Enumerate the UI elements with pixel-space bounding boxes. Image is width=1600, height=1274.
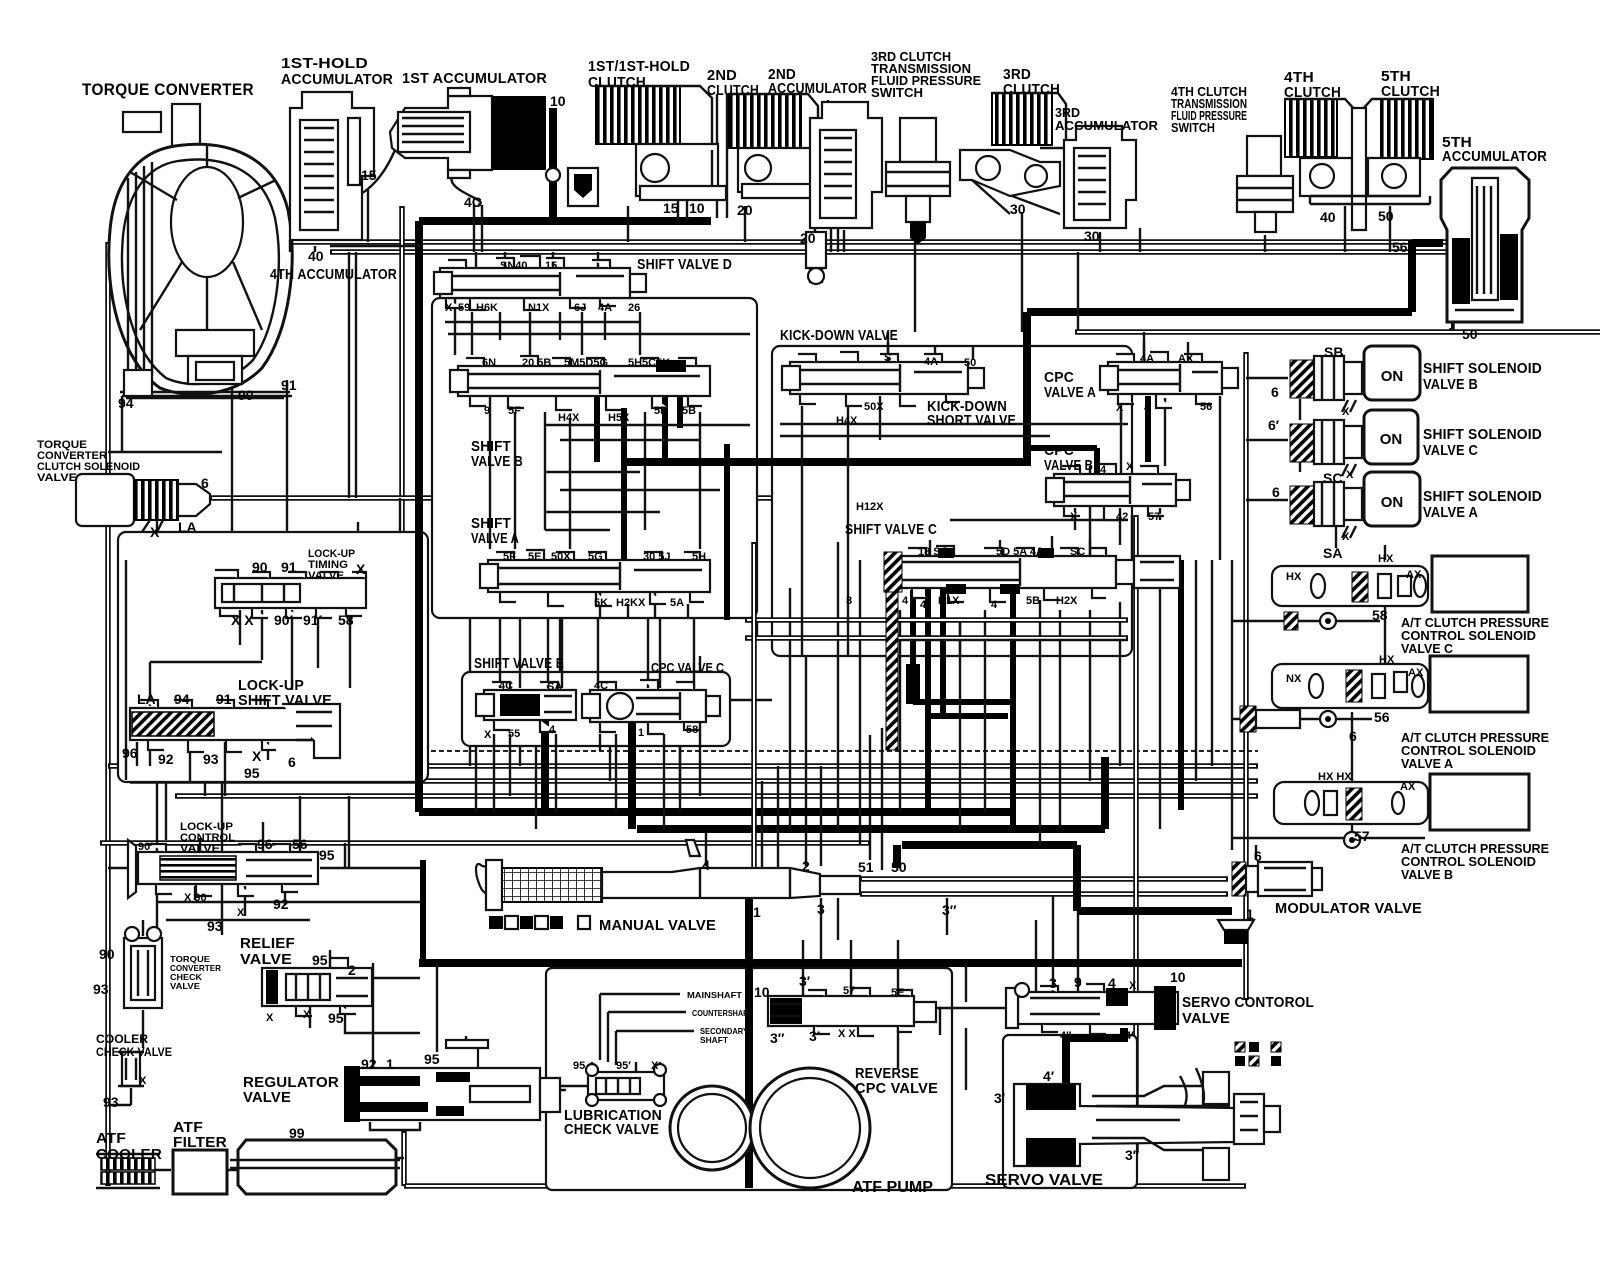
svg-text:4: 4 bbox=[902, 595, 909, 607]
svg-text:4TH ACCUMULATOR: 4TH ACCUMULATOR bbox=[270, 267, 397, 283]
wire right fittings lines bbox=[1232, 545, 1425, 860]
shift solenoid valve A bbox=[1290, 472, 1420, 538]
wire elbow blob bbox=[906, 664, 920, 704]
wire 4c line bbox=[451, 176, 482, 252]
svg-text:REVERSE: REVERSE bbox=[855, 1066, 919, 1082]
wire servo lines bbox=[126, 560, 1017, 1090]
svg-text:10: 10 bbox=[754, 984, 770, 1000]
svg-text:5M5D5G: 5M5D5G bbox=[564, 357, 608, 369]
svg-text:SN40: SN40 bbox=[500, 260, 528, 272]
lock-up control valve bbox=[128, 840, 318, 898]
label tc check valve bbox=[170, 954, 221, 991]
wire relief stubs bbox=[310, 950, 420, 1033]
svg-text:2ND: 2ND bbox=[707, 68, 737, 84]
lock-up timing valve bbox=[215, 570, 366, 618]
svg-text:99: 99 bbox=[289, 1125, 305, 1141]
wire thick 10 drop bbox=[549, 108, 557, 217]
svg-text:1ST-HOLD: 1ST-HOLD bbox=[281, 56, 368, 72]
at cpc solenoid valve B assembly bbox=[1274, 774, 1529, 830]
svg-text:30: 30 bbox=[1010, 201, 1026, 217]
lock-up shift valve bbox=[130, 700, 340, 758]
svg-text:RELIEF: RELIEF bbox=[240, 936, 295, 952]
label ports shift d bbox=[445, 260, 640, 314]
wire bus y796 bbox=[175, 793, 1258, 799]
wire servo control feeds bbox=[1036, 846, 1078, 991]
svg-text:42: 42 bbox=[1116, 511, 1128, 523]
svg-text:57: 57 bbox=[1148, 511, 1160, 523]
svg-text:95: 95 bbox=[312, 952, 328, 968]
at cpc solenoid valve C assembly bbox=[1272, 556, 1528, 612]
svg-text:HX: HX bbox=[1378, 553, 1394, 565]
wire thick servo4 bbox=[1066, 1028, 1124, 1086]
svg-text:94: 94 bbox=[174, 691, 190, 707]
svg-text:3′: 3′ bbox=[994, 1090, 1006, 1106]
svg-text:SHIFT: SHIFT bbox=[471, 439, 511, 455]
svg-text:CPC VALVE: CPC VALVE bbox=[855, 1081, 938, 1097]
svg-text:VALVE A: VALVE A bbox=[1401, 757, 1453, 771]
svg-text:18 SC: 18 SC bbox=[918, 546, 949, 558]
svg-text:X: X bbox=[356, 561, 366, 577]
svg-text:58: 58 bbox=[338, 612, 354, 628]
check valve 10 bbox=[546, 168, 598, 206]
wire reverse cpc feeds bbox=[803, 940, 940, 1035]
cpc valve B bbox=[1046, 464, 1190, 520]
atf pump bbox=[670, 1068, 870, 1188]
svg-text:4C: 4C bbox=[594, 680, 608, 692]
svg-text:20: 20 bbox=[800, 230, 816, 246]
svg-text:4: 4 bbox=[702, 857, 710, 873]
wire thick y462 bbox=[624, 458, 1031, 466]
svg-text:93: 93 bbox=[207, 918, 223, 934]
svg-text:X: X bbox=[266, 1012, 274, 1024]
label cooler check valve bbox=[96, 1032, 172, 1059]
svg-text:ACCUMULATOR: ACCUMULATOR bbox=[281, 72, 393, 88]
shift valve D bbox=[434, 256, 646, 310]
svg-text:15: 15 bbox=[663, 200, 679, 216]
svg-text:CHECK VALVE: CHECK VALVE bbox=[564, 1122, 659, 1138]
label ports cooler check bbox=[103, 1075, 147, 1110]
svg-text:6: 6 bbox=[1254, 848, 1262, 864]
wire thick under shiftC bbox=[913, 585, 1013, 830]
svg-text:5F: 5F bbox=[503, 551, 516, 563]
wire 1st acc pipe bbox=[315, 150, 395, 210]
svg-text:5F: 5F bbox=[508, 405, 521, 417]
wire bottom extra bbox=[898, 963, 1203, 1110]
svg-text:X: X bbox=[139, 1075, 147, 1087]
svg-text:X: X bbox=[1129, 980, 1137, 992]
svg-text:51: 51 bbox=[858, 859, 874, 875]
svg-text:VALVE A: VALVE A bbox=[471, 531, 519, 547]
svg-text:CONTROL SOLENOID: CONTROL SOLENOID bbox=[1401, 629, 1536, 643]
svg-text:SHIFT SOLENOID: SHIFT SOLENOID bbox=[1423, 361, 1542, 377]
svg-text:X X: X X bbox=[231, 612, 254, 628]
wire group box shiftE cluster bbox=[462, 672, 730, 746]
svg-text:SHIFT VALVE C: SHIFT VALVE C bbox=[845, 522, 937, 538]
wire bus y843 bbox=[100, 840, 870, 846]
svg-text:HX: HX bbox=[1286, 571, 1302, 583]
svg-text:SERVO CONTOROL: SERVO CONTOROL bbox=[1182, 995, 1314, 1011]
wire lockup control stubs bbox=[195, 822, 420, 916]
svg-text:COOLER: COOLER bbox=[96, 1032, 148, 1046]
shift valve A bbox=[480, 550, 710, 606]
svg-text:CLUTCH: CLUTCH bbox=[588, 75, 646, 91]
4th clutch pressure switch bbox=[1237, 136, 1293, 232]
svg-text:4: 4 bbox=[1108, 975, 1116, 991]
svg-text:3′: 3′ bbox=[799, 973, 811, 989]
label ports manual valve bbox=[702, 857, 957, 920]
svg-text:40: 40 bbox=[308, 248, 324, 264]
svg-text:20 5B: 20 5B bbox=[522, 357, 551, 369]
svg-text:ON: ON bbox=[1381, 368, 1404, 385]
svg-text:3′: 3′ bbox=[809, 1028, 821, 1044]
svg-text:A/T CLUTCH PRESSURE: A/T CLUTCH PRESSURE bbox=[1401, 616, 1549, 630]
svg-text:CPC VALVE C: CPC VALVE C bbox=[651, 660, 725, 675]
svg-text:VALVE B: VALVE B bbox=[471, 454, 523, 470]
modulator valve bbox=[1218, 862, 1322, 944]
svg-text:95: 95 bbox=[244, 765, 260, 781]
svg-text:4: 4 bbox=[920, 599, 927, 611]
wire right extra verticals bbox=[1090, 396, 1220, 560]
svg-text:50: 50 bbox=[891, 859, 907, 875]
wire regulator link bbox=[466, 1036, 566, 1090]
svg-text:56: 56 bbox=[1200, 401, 1212, 413]
svg-text:LA: LA bbox=[137, 691, 156, 707]
label ports right assemblies bbox=[1286, 553, 1424, 793]
svg-text:SHIFT VALVE: SHIFT VALVE bbox=[238, 693, 332, 709]
svg-text:X: X bbox=[237, 907, 245, 919]
svg-text:SHIFT SOLENOID: SHIFT SOLENOID bbox=[1423, 489, 1542, 505]
svg-text:CONTROL SOLENOID: CONTROL SOLENOID bbox=[1401, 744, 1536, 758]
svg-text:ACCUMULATOR: ACCUMULATOR bbox=[1442, 149, 1547, 165]
svg-text:VALVE C: VALVE C bbox=[1401, 642, 1453, 656]
label ports servo bbox=[994, 1090, 1140, 1163]
svg-text:92: 92 bbox=[273, 896, 289, 912]
label at cpc solenoid c bbox=[1401, 616, 1549, 656]
svg-text:X: X bbox=[1342, 406, 1350, 418]
wire left tc extras bbox=[108, 252, 356, 830]
svg-text:95: 95 bbox=[424, 1051, 440, 1067]
svg-text:6: 6 bbox=[201, 475, 209, 491]
svg-text:VALVE: VALVE bbox=[243, 1090, 291, 1106]
wire group box servo bbox=[1003, 1035, 1137, 1188]
svg-text:5D: 5D bbox=[654, 405, 668, 417]
label ports servo control bbox=[1043, 969, 1186, 1084]
lubrication check valve bbox=[586, 1064, 666, 1106]
svg-text:4A: 4A bbox=[924, 356, 938, 368]
wire thick bus y221 bbox=[419, 217, 711, 225]
svg-text:AX: AX bbox=[1178, 353, 1194, 365]
svg-text:96: 96 bbox=[122, 745, 138, 761]
wire right bus y330 bbox=[1075, 329, 1600, 335]
label cpc valve c bbox=[651, 660, 725, 675]
wire dashed bus y750 bbox=[215, 750, 1258, 752]
svg-text:6N: 6N bbox=[482, 357, 496, 369]
wire left extra verticals bbox=[222, 782, 437, 1067]
svg-text:91′: 91′ bbox=[303, 612, 323, 628]
svg-text:15: 15 bbox=[361, 167, 377, 183]
svg-text:X: X bbox=[484, 729, 492, 741]
svg-text:SA: SA bbox=[547, 681, 562, 693]
svg-text:95: 95 bbox=[328, 1010, 344, 1026]
svg-text:3: 3 bbox=[1049, 975, 1057, 991]
svg-text:LOCK-UP: LOCK-UP bbox=[238, 678, 304, 694]
svg-text:1: 1 bbox=[352, 1108, 360, 1124]
svg-text:4: 4 bbox=[549, 724, 556, 736]
svg-text:5TH: 5TH bbox=[1381, 69, 1411, 85]
svg-text:H6K: H6K bbox=[476, 302, 498, 314]
label lock-up timing valve bbox=[308, 548, 355, 582]
svg-text:1ST ACCUMULATOR: 1ST ACCUMULATOR bbox=[402, 71, 547, 87]
svg-text:MODULATOR VALVE: MODULATOR VALVE bbox=[1275, 901, 1422, 917]
svg-text:KICK-DOWN VALVE: KICK-DOWN VALVE bbox=[780, 328, 898, 344]
svg-text:X: X bbox=[1126, 461, 1134, 473]
label right fittings bbox=[1246, 607, 1390, 922]
svg-text:50X: 50X bbox=[551, 551, 571, 563]
svg-text:5H5C5K: 5H5C5K bbox=[628, 357, 670, 369]
wire cpcB stubs bbox=[1075, 508, 1160, 545]
svg-text:CLUTCH: CLUTCH bbox=[1381, 84, 1440, 100]
svg-text:CLUTCH: CLUTCH bbox=[1003, 82, 1060, 98]
manual valve bbox=[476, 840, 860, 929]
svg-text:6: 6 bbox=[288, 754, 296, 770]
label ports shift e bbox=[484, 680, 608, 741]
svg-text:VALVE A: VALVE A bbox=[1044, 385, 1096, 401]
wire bus y766 bbox=[108, 763, 1258, 769]
svg-text:VALVE: VALVE bbox=[37, 472, 77, 484]
svg-text:30 5J: 30 5J bbox=[643, 551, 671, 563]
wire thick cpcB link bbox=[1031, 448, 1097, 473]
wire group box shift cluster bbox=[432, 298, 757, 618]
wire right vertical x1238 bbox=[1231, 560, 1233, 850]
svg-text:VALVE B: VALVE B bbox=[1401, 868, 1453, 882]
wire bottom bus y1188 bbox=[404, 1131, 1246, 1186]
svg-text:93: 93 bbox=[203, 751, 219, 767]
cooler check valve bbox=[118, 1052, 144, 1086]
svg-text:CHECK VALVE: CHECK VALVE bbox=[96, 1045, 172, 1059]
fitting 6 mid bbox=[1240, 706, 1336, 732]
svg-text:H4X: H4X bbox=[558, 412, 580, 424]
wire thick shiftE drop bbox=[541, 716, 549, 812]
label ports kick-down bbox=[836, 352, 976, 513]
wire thick modulator feed bbox=[1178, 560, 1184, 810]
svg-text:4C: 4C bbox=[464, 194, 482, 210]
svg-text:LA: LA bbox=[178, 519, 197, 535]
wire right mid verticals bbox=[888, 228, 1212, 829]
wire manual top feeds bbox=[762, 766, 778, 868]
svg-text:55: 55 bbox=[508, 728, 520, 740]
svg-text:SA: SA bbox=[1323, 545, 1342, 561]
svg-text:H2KX: H2KX bbox=[616, 597, 646, 609]
relief valve bbox=[262, 958, 372, 1016]
svg-text:H1X: H1X bbox=[938, 595, 960, 607]
wire manual valve feeds bbox=[706, 752, 947, 963]
wire thick under shiftB bbox=[597, 392, 680, 566]
4th accumulator pipe bbox=[290, 240, 420, 252]
svg-text:N1X: N1X bbox=[528, 302, 550, 314]
svg-text:30: 30 bbox=[1084, 228, 1100, 244]
shift valve C bbox=[884, 546, 1180, 602]
svg-text:91: 91 bbox=[216, 691, 232, 707]
svg-text:40: 40 bbox=[1320, 209, 1336, 225]
wire tc solenoid line y498 bbox=[210, 498, 860, 560]
wire thick left vertical bbox=[415, 221, 423, 812]
svg-text:SC: SC bbox=[1323, 470, 1342, 486]
wire thick x419 low bbox=[420, 860, 426, 963]
reverse cpc valve bbox=[768, 988, 936, 1036]
svg-text:90: 90 bbox=[99, 946, 115, 962]
svg-text:HX: HX bbox=[1379, 654, 1395, 666]
svg-text:92: 92 bbox=[361, 1056, 377, 1072]
svg-text:90′: 90′ bbox=[138, 841, 153, 853]
wire left zone horizontals bbox=[108, 843, 420, 920]
wire group box lockup cluster bbox=[118, 532, 428, 782]
svg-text:COOLER: COOLER bbox=[96, 1147, 162, 1163]
svg-text:10: 10 bbox=[1170, 969, 1186, 985]
svg-text:COUNTERSHAFT: COUNTERSHAFT bbox=[692, 1008, 753, 1018]
wire vertical x1136 bbox=[1133, 515, 1139, 1150]
label ports lockup control bbox=[138, 836, 335, 934]
svg-text:X 90: X 90 bbox=[184, 892, 207, 904]
wire kick cluster mesh bbox=[780, 406, 1165, 656]
svg-text:4TH: 4TH bbox=[1284, 70, 1314, 86]
svg-text:20: 20 bbox=[737, 202, 753, 218]
svg-text:2: 2 bbox=[802, 858, 810, 874]
svg-text:REGULATOR: REGULATOR bbox=[243, 1075, 339, 1091]
label 3rd accumulator bbox=[1055, 106, 1158, 133]
cpc valve A bbox=[1100, 352, 1238, 408]
wire thick stub clutch15 bbox=[678, 192, 687, 221]
svg-text:50: 50 bbox=[1462, 326, 1478, 342]
svg-text:AX: AX bbox=[1408, 667, 1424, 679]
wire kickdown stubs bbox=[880, 342, 1188, 440]
svg-text:95′: 95′ bbox=[616, 1060, 631, 1072]
wire 2nd acc piping bbox=[815, 100, 828, 252]
svg-text:58: 58 bbox=[686, 724, 698, 736]
svg-text:1ST/1ST-HOLD: 1ST/1ST-HOLD bbox=[588, 59, 690, 75]
svg-text:VALVE: VALVE bbox=[1182, 1011, 1230, 1027]
wire thick cpcC drop bbox=[628, 716, 636, 829]
svg-text:X: X bbox=[150, 524, 160, 540]
wire shiftC top stubs bbox=[930, 536, 1090, 556]
svg-text:6: 6 bbox=[1271, 384, 1279, 400]
2nd clutch bbox=[729, 94, 820, 198]
wire bus y781 bbox=[130, 778, 1258, 784]
svg-text:50X: 50X bbox=[864, 401, 884, 413]
oil pan 99 bbox=[230, 1140, 400, 1194]
wire vertical x754 bbox=[751, 542, 757, 876]
svg-text:59: 59 bbox=[458, 302, 470, 314]
wire thick kick vertical bbox=[1027, 240, 1443, 462]
svg-text:57: 57 bbox=[1354, 828, 1370, 844]
svg-text:2: 2 bbox=[348, 962, 356, 978]
svg-text:NX: NX bbox=[1286, 673, 1302, 685]
1st/1st-hold clutch bbox=[596, 86, 726, 200]
wire vertical x402 bbox=[399, 206, 405, 558]
svg-text:56: 56 bbox=[1392, 239, 1408, 255]
wire misc mid verticals bbox=[470, 618, 772, 796]
svg-text:5E: 5E bbox=[891, 987, 904, 999]
svg-text:5E: 5E bbox=[528, 551, 541, 563]
svg-text:91: 91 bbox=[281, 377, 297, 393]
wire 2nd clutch center pipe bbox=[717, 94, 838, 252]
svg-text:AX: AX bbox=[1400, 781, 1416, 793]
wire mid cluster verticals B bbox=[476, 722, 700, 829]
5th accumulator bbox=[1441, 168, 1529, 322]
label at cpc solenoid b bbox=[1401, 842, 1549, 882]
svg-text:10: 10 bbox=[689, 200, 705, 216]
svg-text:4′: 4′ bbox=[1125, 1030, 1134, 1042]
svg-text:CPC: CPC bbox=[1044, 443, 1074, 459]
label ports tc check bbox=[93, 946, 115, 997]
svg-text:ACCUMULATOR: ACCUMULATOR bbox=[1055, 119, 1158, 133]
wire shiftA bottom stubs bbox=[600, 592, 688, 618]
svg-text:5B: 5B bbox=[1026, 595, 1040, 607]
svg-text:CPC: CPC bbox=[1044, 370, 1074, 386]
label ports cpc b bbox=[1070, 461, 1160, 523]
shift valve E bbox=[476, 682, 576, 732]
svg-text:92: 92 bbox=[158, 751, 174, 767]
svg-text:ON: ON bbox=[1380, 431, 1403, 448]
label tc clutch solenoid valve bbox=[37, 439, 140, 484]
wire lockup timing bottom stubs bbox=[150, 610, 350, 706]
servo valve bbox=[1014, 1068, 1280, 1180]
svg-text:X: X bbox=[1342, 531, 1350, 543]
atf filter bbox=[173, 1150, 227, 1194]
svg-text:HX HX: HX HX bbox=[1318, 771, 1352, 783]
wire manual valve out right pair bbox=[860, 879, 1228, 894]
svg-text:4: 4 bbox=[1100, 464, 1107, 476]
svg-text:CLUTCH: CLUTCH bbox=[707, 83, 759, 99]
label ports tc solenoid bbox=[150, 475, 209, 540]
wire shaft stubs bbox=[600, 994, 694, 1065]
svg-text:VALVE B: VALVE B bbox=[1423, 377, 1478, 393]
svg-text:MAINSHAFT: MAINSHAFT bbox=[687, 990, 743, 1000]
svg-text:3″: 3″ bbox=[1125, 1147, 1140, 1163]
wire misc right of shiftC bbox=[960, 515, 1180, 656]
2nd accumulator bbox=[806, 102, 882, 284]
wire thick valveA drop bbox=[724, 444, 730, 620]
svg-text:50: 50 bbox=[1378, 208, 1394, 224]
svg-text:26: 26 bbox=[628, 302, 640, 314]
wire left mid vertical bbox=[157, 498, 166, 930]
wire solenoid feeds right bbox=[1246, 378, 1336, 548]
svg-text:1: 1 bbox=[1246, 906, 1254, 922]
svg-text:VALVE B: VALVE B bbox=[1044, 458, 1093, 474]
svg-text:95: 95 bbox=[573, 1060, 585, 1072]
svg-text:5G: 5G bbox=[588, 551, 603, 563]
svg-text:VALVE: VALVE bbox=[170, 981, 200, 991]
kick-down valve bbox=[782, 352, 984, 406]
label ports regulator bbox=[352, 1051, 440, 1124]
svg-text:X: X bbox=[303, 1009, 311, 1021]
3rd clutch pressure switch bbox=[886, 118, 950, 244]
svg-text:6: 6 bbox=[1349, 728, 1357, 744]
label 3rd clutch pressure switch bbox=[871, 50, 981, 100]
svg-text:ON: ON bbox=[1381, 494, 1404, 511]
fitting 56 upper bbox=[1284, 612, 1336, 630]
svg-text:5D 5A 4A: 5D 5A 4A bbox=[996, 546, 1044, 558]
at cpc solenoid valve A assembly bbox=[1272, 656, 1528, 712]
svg-text:SHIFT VALVE D: SHIFT VALVE D bbox=[637, 257, 732, 273]
svg-text:X: X bbox=[1346, 469, 1354, 481]
svg-text:SHIFT VALVE E: SHIFT VALVE E bbox=[474, 656, 564, 672]
label ports reverse cpc bbox=[754, 973, 904, 1046]
label 4th clutch pressure switch bbox=[1171, 85, 1247, 135]
svg-text:AX: AX bbox=[1406, 569, 1422, 581]
4th clutch bbox=[1285, 99, 1355, 196]
wire group box pump bbox=[546, 968, 952, 1190]
5th clutch bbox=[1310, 99, 1433, 230]
